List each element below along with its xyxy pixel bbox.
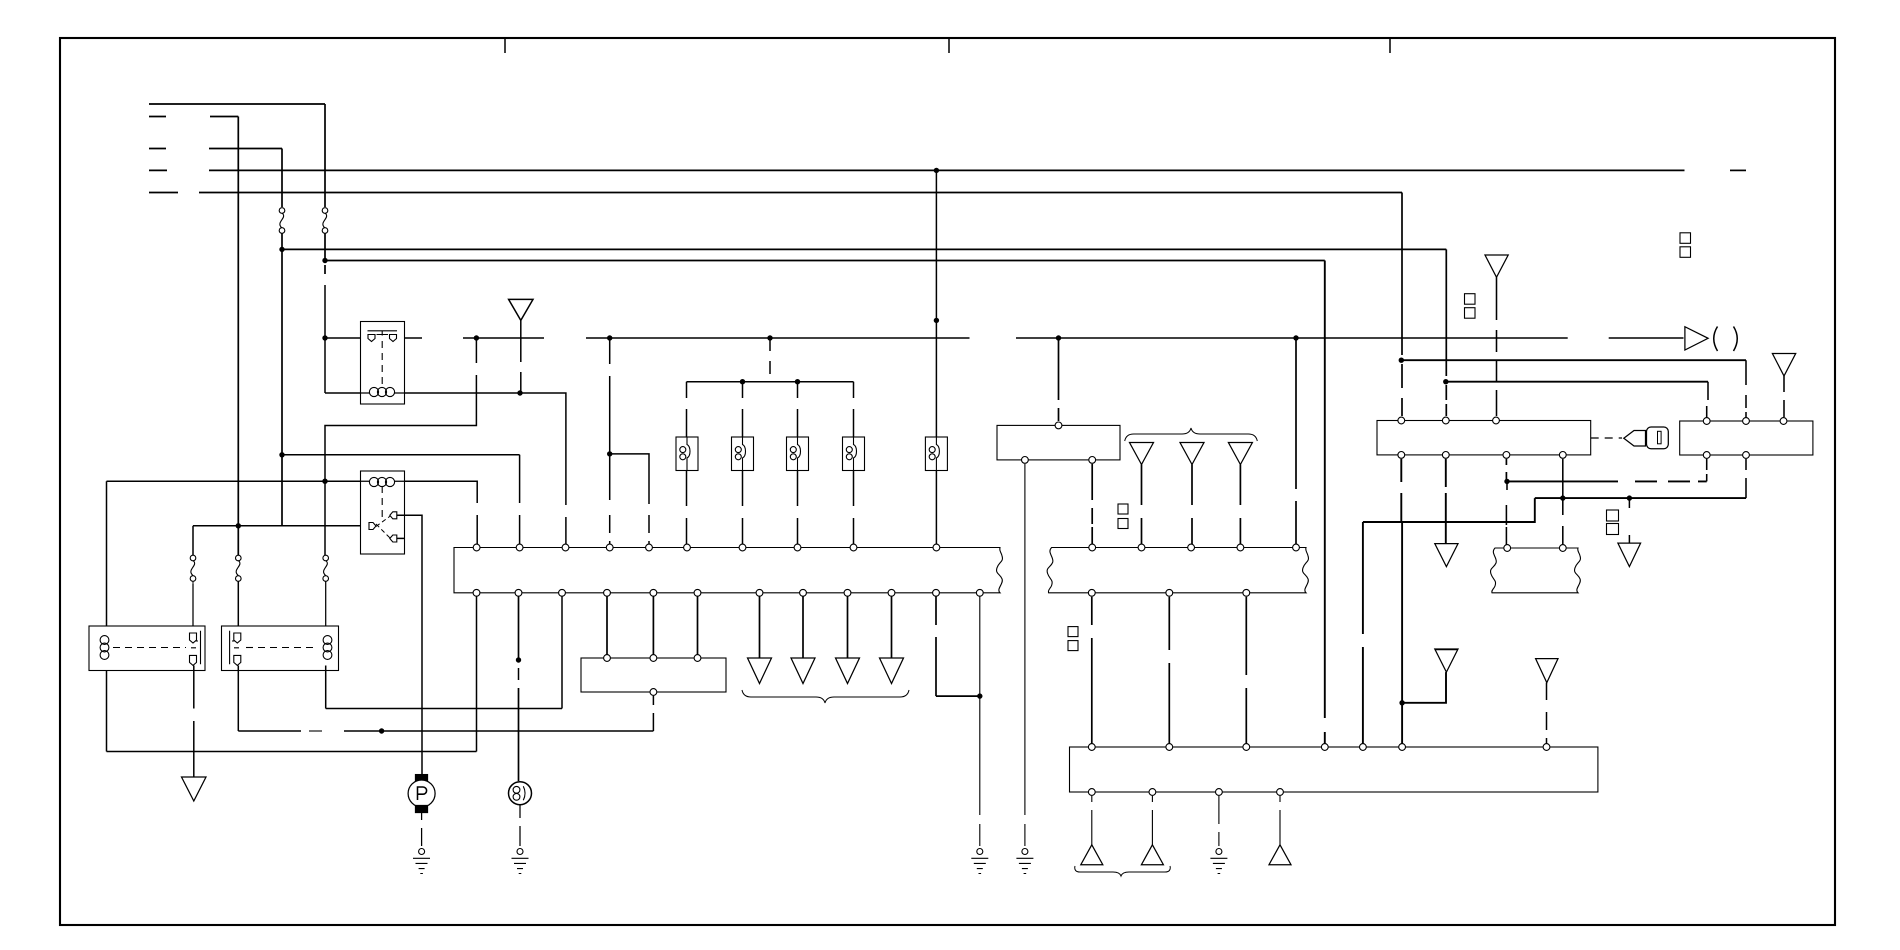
- wire x325 to relay coil corner: [324, 285, 326, 393]
- wire y381 run: [1446, 381, 1708, 383]
- relay U2 contact bar: [368, 331, 398, 336]
- wire y702 to triangle TT8: [1402, 672, 1446, 703]
- fuse box FB2: [732, 437, 754, 471]
- wire antenna A1 stem dash: [520, 372, 522, 393]
- antenna symbol A1: [509, 299, 533, 320]
- wire bus y338 seg1: [463, 337, 544, 339]
- ground G4: [1016, 849, 1033, 874]
- wire x325 dash below dot: [324, 265, 326, 278]
- node junction x1446/y381: [1443, 379, 1448, 384]
- connector triangle T10: [1435, 544, 1458, 567]
- wire riser x759 triangle: [759, 593, 761, 658]
- fuse F1: [279, 208, 285, 234]
- node junction x282/bus455: [279, 452, 284, 457]
- wire bus4 dash stub: [149, 169, 167, 171]
- wire x1506 below J6: [1505, 459, 1507, 482]
- relay U2 dashed link: [381, 341, 383, 388]
- label squares pair SQ4: [1118, 504, 1128, 529]
- wire bus5 long: [199, 192, 1402, 194]
- fuse F3: [190, 555, 196, 584]
- wire relay U3 upper contact to motor drop: [397, 515, 422, 774]
- wire x325 fuse to dot: [324, 233, 326, 261]
- node junction bus338/x609: [607, 335, 612, 340]
- wire x797 riser to fusebox: [797, 382, 799, 437]
- wire antenna A1 stem: [520, 320, 522, 362]
- wire x476 connector to y751: [476, 593, 478, 752]
- wire T5 stem: [1141, 465, 1143, 548]
- overbrace triangles: [1125, 428, 1258, 441]
- wire x1708 down to J7: [1707, 382, 1708, 421]
- wire bus5 dash stub: [149, 192, 178, 194]
- node junction x1506/y481: [1504, 479, 1509, 484]
- node junction coilwire/x520: [517, 390, 522, 395]
- connector J4 big box: [1070, 747, 1598, 792]
- wire x609 bus to dot: [609, 338, 611, 364]
- relay U4 coil: [100, 636, 109, 660]
- wire bus y338 seg2: [586, 337, 970, 339]
- node junction x936/bus170: [934, 168, 939, 173]
- wire x1506 down to J8: [1505, 481, 1508, 548]
- wire x476 dash: [325, 375, 476, 481]
- wire x565.9 dash to connector: [565, 517, 567, 548]
- wire x686 riser to fusebox: [686, 382, 688, 437]
- wire bus2: [210, 116, 238, 118]
- node junction y381/x742: [740, 379, 745, 384]
- wire lamp feed lower: [518, 688, 520, 781]
- wire x1025 long drop: [1024, 464, 1026, 846]
- relay U3 switch diagonals: [376, 516, 391, 540]
- pin J7 top terminals: [1703, 418, 1787, 425]
- wire relay U4 lower contact down: [193, 666, 195, 778]
- wire T9 stem dash: [1546, 683, 1548, 747]
- node splice y731: [379, 728, 384, 733]
- wire relay1 left contact stub: [325, 337, 361, 339]
- wire x1169 riser: [1168, 597, 1170, 747]
- wire key dashed link: [1591, 437, 1622, 439]
- pin J4 top terminals: [1088, 744, 1550, 751]
- fuse F5: [323, 555, 329, 581]
- relay U3 box: [361, 471, 405, 554]
- wire relay1 coil right to corner: [396, 393, 566, 505]
- wire bus y338 arrow feed: [1609, 337, 1684, 339]
- relay U2 box: [361, 322, 405, 405]
- ground triangle GT1: [182, 777, 207, 801]
- pin J5 bottom terminals: [1088, 589, 1249, 596]
- wire riser x803 triangle: [802, 593, 804, 658]
- wire T6 stem: [1191, 465, 1193, 548]
- connector J7 box: [1680, 421, 1813, 455]
- connector up-triangle UT1: [1081, 845, 1103, 865]
- wire G5 stem: [1218, 796, 1220, 846]
- ground G1: [413, 849, 430, 874]
- pin J1 top terminals: [473, 544, 940, 551]
- relay U3 right contact pins: [390, 512, 397, 542]
- wire T7 stem: [1239, 465, 1241, 548]
- wire bus4 end dash: [1730, 169, 1746, 171]
- wire x282 below fuse: [281, 233, 283, 526]
- wire x649 dash: [648, 515, 650, 533]
- relay U5 dashed link: [246, 647, 318, 649]
- wire x853 fusebox to connector: [853, 471, 855, 548]
- wire bus4 long: [209, 169, 1685, 171]
- connector up-triangle UT3: [1269, 845, 1291, 865]
- node junction x325/relay1 contact: [322, 335, 327, 340]
- wire UT3 stem: [1279, 796, 1281, 845]
- pin J3 top terminals: [604, 655, 701, 662]
- wire x1446 from bus249: [1445, 249, 1447, 416]
- wire bottom run y751: [107, 751, 477, 753]
- wire relay2 coil right corner: [405, 481, 478, 503]
- wire x686 fusebox to connector: [686, 471, 688, 548]
- connector triangle T3: [836, 658, 860, 684]
- wire riser x891 triangle: [891, 593, 893, 658]
- connector triangle T9: [1536, 659, 1558, 683]
- ground G3: [971, 849, 988, 874]
- wire lamp to ground dash: [519, 805, 521, 846]
- wire x797 fusebox to connector: [797, 471, 799, 548]
- node junction bus338/x770: [767, 335, 772, 340]
- wire A2 stem: [1496, 277, 1498, 416]
- pin J2 top terminal: [1055, 422, 1062, 429]
- wire x1246 riser: [1245, 597, 1247, 747]
- node junction bus338/x1058: [1056, 335, 1061, 340]
- connector J2 box: [997, 425, 1120, 460]
- relay U5 box: [222, 626, 339, 671]
- wire y498 run: [1535, 497, 1746, 499]
- wire x1296 riser: [1295, 338, 1297, 548]
- node splice x936: [934, 318, 939, 323]
- wire bus3: [209, 148, 282, 150]
- node splice x518: [516, 657, 521, 662]
- wire x477 dash to connector: [476, 515, 478, 548]
- wire x476 bus to jog corner: [475, 338, 477, 363]
- wire relay U3 lower contact stub: [397, 537, 405, 539]
- fuse F2: [322, 208, 328, 234]
- wire lamp feed dash: [518, 668, 520, 680]
- pin J4 bottom terminals: [1088, 789, 1283, 796]
- wire UT2 stem: [1151, 796, 1153, 845]
- wire x193 corner to fuse F3: [192, 526, 194, 555]
- wire x1091 riser: [1091, 597, 1093, 747]
- wire relay1 right contact stub: [405, 337, 423, 339]
- relay U3 coil: [369, 477, 394, 486]
- label squares pair SQ3: [1607, 510, 1619, 535]
- relay U3 dashed link: [381, 486, 383, 520]
- wire bus y338 seg3: [1016, 337, 1568, 339]
- relay U2 contact pins: [368, 335, 397, 342]
- wire x1402 lower segment: [1401, 522, 1403, 747]
- bracket under triangles: [742, 690, 909, 703]
- wire x742 fusebox to connector: [742, 471, 744, 548]
- wire riser x607: [606, 593, 608, 658]
- relay U2 coil: [369, 387, 394, 396]
- relay U4 contact pins: [190, 633, 197, 665]
- wire UT1 stem: [1091, 796, 1093, 845]
- antenna A2: [1485, 255, 1508, 277]
- relay U4 box: [89, 626, 205, 671]
- node junction x1629/y498: [1627, 495, 1632, 500]
- wire y522 run: [1363, 498, 1535, 522]
- wire relay1 coil left: [325, 392, 361, 394]
- connector triangle T2: [791, 658, 815, 684]
- wire riser x770 dash: [769, 338, 771, 382]
- wire x609 dash2: [609, 515, 611, 533]
- wire left drop x106: [106, 481, 108, 751]
- wire x1746 down to J6: [1745, 360, 1747, 421]
- node junction x325/y481: [322, 479, 327, 484]
- pin J1 bottom terminals: [473, 589, 983, 596]
- ground G5: [1210, 849, 1227, 874]
- pin J3 bottom terminal: [650, 689, 657, 696]
- node junction x325/bus260: [322, 258, 327, 263]
- wire vertical feed x238: [237, 117, 239, 556]
- wire x649 tail: [648, 541, 650, 548]
- connector triangle T1: [748, 658, 772, 684]
- node junction y525/x238: [236, 523, 241, 528]
- connector J6 box: [1377, 421, 1591, 455]
- wire x562 up to connector: [561, 593, 563, 709]
- wire vertical feed x325 upper: [324, 104, 326, 207]
- wire x609 tail: [609, 541, 611, 548]
- wire vertical feed x282 upper: [281, 149, 283, 208]
- relay U5 contact bar: [230, 631, 239, 665]
- arrow connector with parens: [1685, 327, 1708, 350]
- node junction x609/y454: [607, 451, 612, 456]
- wire x1445 below J6: [1445, 459, 1447, 544]
- wire x325 dot to fuse F5: [324, 481, 326, 555]
- wire x1746 below J7: [1745, 459, 1747, 498]
- connector J3 small box: [581, 658, 726, 692]
- pin J8 top terminals: [1504, 545, 1566, 552]
- connector J8 box wavy: [1491, 548, 1581, 593]
- connector up-triangle UT2: [1141, 845, 1163, 865]
- node junction x1402/y360: [1399, 358, 1404, 363]
- pin J2 bottom terminals: [1022, 457, 1096, 464]
- wire y360 run: [1401, 359, 1746, 361]
- wire y708 run: [326, 708, 562, 710]
- relay U4 contact bar: [191, 631, 201, 665]
- wire x936 top drop: [935, 170, 937, 437]
- wire x1402 from bus192: [1401, 193, 1403, 417]
- wire motor to ground dash: [421, 813, 423, 846]
- fuse F4: [236, 555, 242, 581]
- wire relay U5 lower contact to y731: [237, 666, 239, 732]
- wire F4 to relay U5: [237, 581, 239, 634]
- connector triangle T7: [1228, 443, 1252, 465]
- wire x1401 below J6: [1400, 459, 1402, 522]
- label squares pair SQ2: [1680, 233, 1691, 257]
- wire x936 fusebox to connector: [935, 471, 937, 548]
- wire lamp feed from connector: [518, 593, 520, 660]
- connector J5 box wavy: [1047, 548, 1308, 593]
- wire x519 dash to connector: [519, 455, 521, 548]
- wire x742 riser to fusebox: [742, 382, 744, 437]
- wire y731 run right: [344, 730, 653, 732]
- wire y731 dash: [309, 730, 322, 732]
- key symbol: [1624, 427, 1669, 449]
- wire x936 below connector: [935, 593, 937, 696]
- node junction x980/y696: [977, 693, 982, 698]
- wire x1362 from corner y522: [1362, 522, 1364, 747]
- relay U5 coil: [323, 636, 332, 660]
- wire x853 riser to fusebox: [853, 382, 855, 437]
- motor M1 pump: [408, 775, 435, 813]
- wire J3 bottom to y731: [652, 696, 654, 731]
- pin J5 top terminals: [1089, 544, 1300, 551]
- fuse box FB3: [787, 437, 809, 471]
- wire bus y260: [325, 260, 1325, 262]
- wire x936 corner to x980: [936, 695, 980, 697]
- fuse box FB5: [925, 437, 947, 471]
- wire x609 branch to x649: [610, 454, 649, 504]
- wire J2 top riser: [1058, 338, 1060, 421]
- wire F5 to relay U5 coil: [325, 581, 327, 638]
- connector triangle T6: [1180, 443, 1204, 465]
- label squares pair SQ1: [1465, 294, 1476, 319]
- relay U3 left contact pin: [369, 523, 376, 530]
- label squares pair SQ5: [1068, 627, 1078, 651]
- connector J1 long box: [454, 548, 1002, 593]
- node junction bus338/x1296: [1293, 335, 1298, 340]
- wire x1562 down segment: [1562, 459, 1564, 498]
- wire relay U5 coil down to y708: [325, 666, 327, 709]
- connector triangle T11: [1618, 543, 1641, 567]
- node junction x282/bus249: [279, 247, 284, 252]
- wire riser x697: [697, 593, 699, 658]
- pin J6 bottom terminals: [1398, 452, 1566, 459]
- pin J6 top terminals: [1398, 417, 1500, 424]
- bracket under up-triangles: [1075, 866, 1171, 876]
- wire riser x653: [652, 593, 654, 658]
- relay U4 dashed link: [113, 647, 186, 649]
- wire y731 run left: [238, 730, 301, 732]
- wire x1324 long vertical: [1324, 261, 1326, 748]
- fuse box FB1: [676, 437, 698, 471]
- connector triangle T5: [1130, 443, 1154, 465]
- wire y454 run: [282, 454, 520, 456]
- node junction y381/x797: [795, 379, 800, 384]
- wire fuse sub-bus y381: [687, 381, 854, 383]
- wire bus2 dash stub: [149, 116, 166, 118]
- wire bus3 dash stub: [149, 148, 166, 150]
- wire x1562 to J8: [1562, 498, 1564, 548]
- wire x980 down: [979, 593, 981, 846]
- wire x1629 stem: [1628, 498, 1630, 543]
- wire F3 to relay U4: [192, 584, 194, 634]
- wire x1706 down to y481: [1706, 459, 1708, 481]
- ground G2: [512, 849, 529, 874]
- fuse box FB4: [843, 437, 865, 471]
- wire x609 dash: [609, 376, 611, 500]
- wire riser x847 triangle: [847, 593, 849, 658]
- connector triangle TT8 thick top: [1435, 649, 1458, 672]
- wire y481 left run: [107, 480, 362, 482]
- pin J7 bottom terminals: [1703, 452, 1749, 459]
- wire x1092 to connector2: [1091, 464, 1093, 548]
- wire bus y249: [282, 248, 1446, 250]
- node junction bus338/x476: [474, 335, 479, 340]
- wire A3 stem: [1783, 376, 1785, 417]
- node junction x1562/y498: [1560, 495, 1565, 500]
- wire y481 run: [1507, 480, 1707, 482]
- wire bus1 top-left: [149, 103, 325, 105]
- connector triangle T4: [880, 658, 904, 684]
- node junction x1402/y702: [1399, 700, 1404, 705]
- antenna A3: [1772, 354, 1795, 377]
- wire relay2 left contact feed y525: [193, 525, 372, 527]
- relay U5 contact pins: [234, 633, 241, 665]
- lamp L1: [509, 782, 532, 805]
